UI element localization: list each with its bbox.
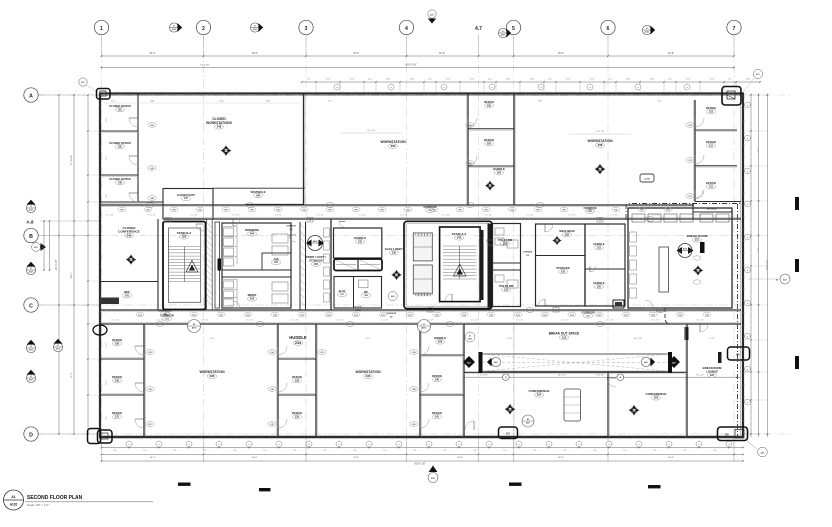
wall closed conference bottom <box>100 281 158 283</box>
svg-text:01: 01 <box>57 345 59 347</box>
label womens <box>245 228 259 236</box>
svg-text:4: 4 <box>405 26 408 32</box>
svg-text:234: 234 <box>295 341 301 345</box>
title text <box>25 495 153 507</box>
stair A-2 enclosure <box>440 227 481 302</box>
svg-text:12'-0": 12'-0" <box>686 79 691 81</box>
svg-text:01: 01 <box>30 346 32 348</box>
wall office column mid-left <box>467 94 469 206</box>
svg-text:11'-1 1/2": 11'-1 1/2" <box>651 320 659 322</box>
svg-text:12'-0": 12'-0" <box>410 79 415 81</box>
section marker 01/A363 left <box>26 262 35 275</box>
label office 240b <box>432 374 442 382</box>
svg-text:D3: D3 <box>193 324 195 326</box>
wall partition office 211 <box>695 201 741 203</box>
svg-text:13: 13 <box>659 310 661 312</box>
extension lines bottom <box>102 324 735 461</box>
label mech elec <box>707 209 718 211</box>
svg-text:E6: E6 <box>736 353 740 357</box>
door huddle 213 <box>590 266 596 272</box>
svg-text:7'-6": 7'-6" <box>353 450 357 452</box>
svg-text:7'-6": 7'-6" <box>203 450 207 452</box>
section marker top between 4 and 4.7 <box>428 10 436 24</box>
svg-text:2'-0": 2'-0" <box>668 79 672 81</box>
wall partition closed offices 1 <box>100 130 138 132</box>
svg-text:7'-6": 7'-6" <box>756 148 758 152</box>
svg-text:11'-8": 11'-8" <box>111 100 116 102</box>
svg-text:7'-6": 7'-6" <box>756 248 758 252</box>
svg-text:11'-10": 11'-10" <box>294 338 300 340</box>
label storage 210 <box>556 266 570 274</box>
svg-text:11'-1 1/2": 11'-1 1/2" <box>291 320 299 322</box>
svg-text:7'-6": 7'-6" <box>503 450 507 452</box>
svg-text:7'-6": 7'-6" <box>533 450 537 452</box>
svg-text:12'-0": 12'-0" <box>710 79 715 81</box>
door breakroom lounge <box>700 324 708 332</box>
left dim extra A.8 to B <box>42 220 50 271</box>
grid line 7 <box>733 36 735 462</box>
svg-text:12'-0": 12'-0" <box>506 79 511 81</box>
grid bubble D <box>24 427 38 441</box>
detail circle 03/A372 <box>418 320 431 333</box>
detail circle A3/A401 <box>522 415 534 427</box>
exterior wall top <box>99 92 743 94</box>
label huddle 220 <box>593 281 604 289</box>
exterior wall bottom <box>99 436 744 439</box>
wall partition closed offices 2 <box>100 174 138 176</box>
svg-text:236: 236 <box>210 374 215 378</box>
grid bubble 3 <box>299 20 313 34</box>
door huddle 232 <box>339 222 345 228</box>
corridor dim text row bottom <box>111 320 704 322</box>
label elav 227 <box>337 290 346 297</box>
dimension line top level 1 <box>101 35 735 57</box>
dimension line bottom overall <box>101 460 744 465</box>
section marker 04/A362 top <box>169 23 182 32</box>
svg-text:13: 13 <box>309 220 311 222</box>
svg-text:11'-1 1/2": 11'-1 1/2" <box>201 320 209 322</box>
door toilet 218 <box>487 240 493 246</box>
svg-text:11'-8": 11'-8" <box>106 380 108 385</box>
svg-text:10'-0": 10'-0" <box>106 415 108 420</box>
svg-text:17'-2 3/4": 17'-2 3/4" <box>106 215 114 217</box>
smoke partition dashed top right <box>626 204 741 220</box>
label vestibule <box>250 190 265 198</box>
wall print copy storage <box>300 219 331 310</box>
corridor wall core north <box>163 218 741 220</box>
svg-text:7'-6": 7'-6" <box>473 450 477 452</box>
stair B-2 label <box>177 231 192 239</box>
svg-text:A: A <box>29 94 33 100</box>
svg-text:2'-0": 2'-0" <box>368 79 372 81</box>
wall double-line faces <box>100 95 737 437</box>
svg-text:17'-0 1/2": 17'-0 1/2" <box>480 374 488 376</box>
label ref 241 <box>122 290 131 298</box>
grid line 5 <box>513 36 515 462</box>
section marker left C-D inner <box>53 339 62 352</box>
section marker D5/A371 top right <box>741 69 763 95</box>
svg-text:C: C <box>29 304 33 310</box>
door closed office 251 <box>129 118 138 127</box>
grid bubble 1 <box>94 20 108 34</box>
wall conference partition <box>607 372 609 437</box>
label huddle 228 <box>434 336 447 344</box>
svg-text:A321: A321 <box>783 278 787 281</box>
shaft dark rect left wall <box>100 298 119 305</box>
dimension line left level 2 <box>56 94 60 435</box>
stair B-2 treads <box>169 228 201 302</box>
svg-text:A401: A401 <box>526 422 530 425</box>
svg-text:8'-0": 8'-0" <box>658 100 662 102</box>
section marker 01/A362 top <box>250 23 263 32</box>
exterior wall left <box>99 93 101 439</box>
svg-text:A102: A102 <box>10 503 18 507</box>
label workstation 265 <box>380 140 406 149</box>
label closed office 249 <box>109 177 131 185</box>
label corridor 214 <box>523 252 533 257</box>
door conference 224 <box>465 421 474 430</box>
svg-text:600'-0 1/8": 600'-0 1/8" <box>415 464 426 466</box>
door office 241b <box>420 419 429 428</box>
svg-text:36'-8": 36'-8" <box>439 52 445 55</box>
svg-text:12'-0": 12'-0" <box>326 79 331 81</box>
svg-text:17'-2 3/4": 17'-2 3/4" <box>358 215 366 217</box>
section marker A303 left above A.8 <box>26 200 35 213</box>
door number ovals corridors <box>146 203 664 327</box>
detail circle A403 elev lobby <box>388 292 397 301</box>
svg-text:A372: A372 <box>422 327 426 330</box>
svg-text:210: 210 <box>561 270 566 273</box>
svg-text:5: 5 <box>512 26 515 32</box>
grid line 3 <box>305 36 307 462</box>
svg-text:11'-8": 11'-8" <box>106 117 108 122</box>
marker A427 diamond left <box>463 356 475 368</box>
mech shaft rooms central block <box>413 233 432 296</box>
svg-text:11'-8": 11'-8" <box>106 342 108 347</box>
door office 211 right <box>695 190 704 199</box>
svg-text:221B: 221B <box>644 179 650 181</box>
grid leader lines left <box>38 95 100 434</box>
wall closed workstations bottom <box>213 187 305 189</box>
svg-text:30'-0": 30'-0" <box>150 457 156 459</box>
svg-text:17'-2 3/4": 17'-2 3/4" <box>694 215 702 217</box>
svg-text:13: 13 <box>599 220 601 222</box>
scale bar dash 3 <box>509 483 522 486</box>
label huddle 213 <box>593 242 604 250</box>
label closed conference <box>118 226 140 238</box>
svg-text:A361: A361 <box>431 477 435 480</box>
interior elevation marker huddle 204 <box>485 181 495 191</box>
svg-text:7'-6": 7'-6" <box>443 450 447 452</box>
svg-text:11'-1 1/2": 11'-1 1/2" <box>561 320 569 322</box>
svg-text:2'-0": 2'-0" <box>548 79 552 81</box>
door office 205 <box>468 156 477 165</box>
label breakroom lounge <box>703 366 722 377</box>
svg-text:7'-6": 7'-6" <box>323 450 327 452</box>
svg-text:13: 13 <box>357 309 359 311</box>
grid line 4.7 <box>478 36 480 462</box>
interior elevation marker break room 1 <box>677 244 694 258</box>
label corridor 229 <box>386 313 397 318</box>
svg-text:8'-0": 8'-0" <box>328 100 332 102</box>
scale bar dash 1 <box>178 483 191 486</box>
toilet rooms womens mens <box>222 223 291 308</box>
svg-text:03: 03 <box>423 324 425 326</box>
match line tick right upper <box>795 197 799 210</box>
svg-text:17'-2 3/4": 17'-2 3/4" <box>526 215 534 217</box>
label corridor 203 <box>423 206 436 213</box>
svg-text:Scale: 1/8" = 1'-0": Scale: 1/8" = 1'-0" <box>27 503 49 507</box>
grid label A.8 <box>26 220 100 225</box>
tag ovals corridor top row <box>118 207 672 211</box>
label office 212 right <box>706 140 716 148</box>
svg-text:01: 01 <box>502 31 504 33</box>
wall closed conference right <box>157 219 159 310</box>
door wellness <box>545 224 553 232</box>
door conference 223 <box>607 378 616 387</box>
svg-text:12'-0": 12'-0" <box>566 79 571 81</box>
detail circle D3/A372 <box>188 320 201 333</box>
svg-text:239: 239 <box>115 342 120 345</box>
svg-text:4.7: 4.7 <box>475 26 482 32</box>
door office 206 <box>468 118 477 127</box>
grid line B <box>38 235 748 237</box>
svg-text:23'-11 5/8": 23'-11 5/8" <box>71 155 73 165</box>
door stair A-2 lower <box>445 294 452 301</box>
svg-text:01: 01 <box>30 206 32 208</box>
section marker A301 left <box>32 243 46 252</box>
wall huddle 232 <box>334 228 382 258</box>
dimension line left level 1 <box>71 94 75 435</box>
wall partition office 238 <box>100 394 144 396</box>
label wellness <box>559 229 575 237</box>
svg-text:265: 265 <box>391 144 396 148</box>
svg-text:12'-0": 12'-0" <box>626 79 631 81</box>
detail callout right wall middle <box>728 347 750 360</box>
section marker 07/A362 top <box>498 28 511 37</box>
svg-text:2'-0": 2'-0" <box>307 79 311 81</box>
equipment tag break room NE <box>640 174 654 182</box>
svg-text:222: 222 <box>710 374 715 377</box>
label office 205 <box>484 138 494 146</box>
svg-text:10'-0": 10'-0" <box>106 193 108 198</box>
label conference 224 <box>528 389 549 397</box>
wall grid3 vertical top band <box>303 94 305 206</box>
svg-text:2: 2 <box>202 26 205 32</box>
svg-text:7'-6": 7'-6" <box>113 450 117 452</box>
door office 238 <box>135 383 144 392</box>
svg-text:17'-2 1/2": 17'-2 1/2" <box>696 374 704 376</box>
label closed office 251 <box>109 104 131 112</box>
door storage 210 <box>538 299 545 306</box>
door office 211b <box>695 190 703 198</box>
svg-text:A413: A413 <box>696 269 700 272</box>
tag ovals corridor bottom row <box>136 312 711 316</box>
svg-text:47'-0": 47'-0" <box>210 338 215 340</box>
wall office column mid-right <box>513 94 515 206</box>
grid bubble 7 <box>727 20 741 34</box>
svg-text:11'-1 1/2": 11'-1 1/2" <box>336 320 344 322</box>
svg-text:11'-1 1/2": 11'-1 1/2" <box>381 320 389 322</box>
svg-text:36'-8": 36'-8" <box>252 457 258 459</box>
svg-text:A414: A414 <box>555 240 559 243</box>
grid bubble 5 <box>506 20 520 34</box>
svg-text:240: 240 <box>435 378 440 381</box>
svg-text:213: 213 <box>709 110 714 113</box>
shaft dark bar 2 <box>488 224 492 308</box>
elevator shaft wall hatch <box>206 219 212 310</box>
interior elevation marker break room 2 <box>693 265 703 275</box>
wall office column left top <box>137 94 139 203</box>
door office 239 <box>135 346 144 355</box>
svg-text:66'-8 5/8": 66'-8 5/8" <box>200 65 209 67</box>
svg-text:55'-4 1/4": 55'-4 1/4" <box>596 131 605 133</box>
svg-text:244: 244 <box>250 232 255 236</box>
wall huddle column mid <box>585 224 625 306</box>
dimension line bottom level 1 <box>101 447 744 453</box>
svg-text:11'-1 1/2": 11'-1 1/2" <box>606 320 614 322</box>
svg-text:36'-8": 36'-8" <box>353 52 359 55</box>
svg-text:CORRIDOR: CORRIDOR <box>581 312 594 315</box>
grid bubble 4.7 <box>475 26 482 32</box>
corridor dim text row top <box>106 215 702 217</box>
corridor wall top north <box>100 205 694 207</box>
label office 236b <box>292 375 302 383</box>
svg-text:36'-8": 36'-8" <box>668 52 674 55</box>
svg-text:3: 3 <box>305 26 308 32</box>
svg-text:15'-8 5/8": 15'-8 5/8" <box>596 374 604 376</box>
corridor wall core south <box>100 310 741 312</box>
svg-text:A416: A416 <box>129 259 133 262</box>
svg-text:229: 229 <box>390 316 393 318</box>
wall wellness storage <box>536 224 586 306</box>
wall partition column2 a <box>420 354 464 356</box>
door stair B-2 <box>196 224 203 231</box>
exterior wall inner face right <box>740 94 742 438</box>
label office 239 <box>112 338 122 346</box>
svg-text:7'-6": 7'-6" <box>263 450 267 452</box>
wall partition column1 a <box>278 358 316 360</box>
window tag circles top wall <box>334 84 690 90</box>
exterior wall right <box>742 93 744 439</box>
wall mech elec room <box>693 204 732 219</box>
stair A-2 label <box>452 232 467 240</box>
dimension line left inner <box>86 94 100 435</box>
wall column1 left <box>277 324 279 437</box>
svg-text:12'-0": 12'-0" <box>446 79 451 81</box>
label closed workstations <box>206 117 232 129</box>
svg-text:7'-6": 7'-6" <box>683 450 687 452</box>
dimension line right inner <box>744 94 768 438</box>
door print copy <box>289 235 296 242</box>
svg-text:239: 239 <box>290 229 293 231</box>
svg-text:12'-0": 12'-0" <box>650 79 655 81</box>
svg-text:7'-6": 7'-6" <box>383 450 387 452</box>
svg-text:SECOND FLOOR PLAN: SECOND FLOOR PLAN <box>27 495 83 501</box>
dim texts bottom band <box>210 338 715 340</box>
svg-text:232: 232 <box>358 241 363 244</box>
wall closed data room <box>163 189 213 220</box>
svg-text:36'-8": 36'-8" <box>558 457 564 459</box>
svg-text:7'-6": 7'-6" <box>413 450 417 452</box>
svg-text:36'-8": 36'-8" <box>353 457 359 459</box>
grid line C <box>38 304 748 306</box>
wall partition office 212 <box>695 165 737 167</box>
svg-text:11'-10": 11'-10" <box>709 338 715 340</box>
door office 213 right <box>695 118 704 127</box>
svg-text:CORRIDOR: CORRIDOR <box>158 310 171 313</box>
svg-text:01: 01 <box>254 26 256 28</box>
svg-text:36'-8": 36'-8" <box>252 52 258 55</box>
svg-text:17'-2 3/4": 17'-2 3/4" <box>400 215 408 217</box>
label corridor 207 <box>583 207 596 214</box>
svg-text:17'-2 3/4": 17'-2 3/4" <box>148 215 156 217</box>
dimension row breakout <box>463 374 741 381</box>
svg-text:12'-0": 12'-0" <box>386 79 391 81</box>
door closed office 250 <box>129 156 138 165</box>
match line tick right lower <box>795 356 799 369</box>
wall conference east <box>686 324 688 437</box>
grid line 4 <box>406 36 408 462</box>
label office 237 <box>112 411 122 419</box>
operable partition breakout <box>479 352 673 373</box>
sub-top dimension texts <box>104 99 662 103</box>
label huddle 204 <box>493 167 505 175</box>
scale bar dash 4 <box>648 485 661 488</box>
svg-text:86'-1 1/4": 86'-1 1/4" <box>634 338 642 340</box>
label huddle 234 <box>289 335 307 345</box>
svg-text:40'-2": 40'-2" <box>366 338 371 340</box>
stair B-2 enclosure <box>163 222 206 310</box>
svg-text:17'-2 3/4": 17'-2 3/4" <box>652 215 660 217</box>
interior elevation marker conference 223 <box>629 405 640 416</box>
svg-text:12'-0": 12'-0" <box>530 79 535 81</box>
curtain wall mullion ticks exterior <box>98 91 745 439</box>
door office 236b <box>278 383 287 392</box>
svg-text:241: 241 <box>125 294 130 297</box>
svg-text:13: 13 <box>429 310 431 312</box>
svg-text:248: 248 <box>217 125 222 129</box>
dimension line right level 2 <box>765 94 768 438</box>
label break room <box>687 234 708 242</box>
section marker 01/A371 top left <box>79 78 98 92</box>
wall column1 right <box>315 324 317 437</box>
break room interior tag ovals <box>693 256 701 284</box>
section marker left C-D upper <box>26 340 35 353</box>
svg-text:205: 205 <box>487 142 492 145</box>
wall closed offices bottom <box>100 201 163 203</box>
label mens <box>247 293 256 301</box>
label corridor 212 <box>581 312 594 319</box>
shaft dark bar left of toilets <box>480 230 484 300</box>
detail callout bottom-right corner <box>718 427 748 441</box>
door closed office 249 <box>129 193 138 202</box>
dark shaft core south <box>613 300 624 308</box>
scale bar dash 2 <box>259 488 271 491</box>
svg-text:01: 01 <box>173 26 175 28</box>
leader line E8 to A6 marker <box>747 441 758 450</box>
dimension line bottom level 2 <box>101 454 744 460</box>
svg-text:11'-1 1/2": 11'-1 1/2" <box>516 320 524 322</box>
interior elevation marker workstation 208 <box>595 164 606 175</box>
label break out space <box>549 332 580 340</box>
svg-text:7'-6": 7'-6" <box>143 450 147 452</box>
break room west casework <box>630 232 637 298</box>
svg-text:7: 7 <box>733 26 736 32</box>
svg-text:11'-1 1/2": 11'-1 1/2" <box>471 320 479 322</box>
svg-text:245: 245 <box>127 233 132 237</box>
svg-text:A416: A416 <box>224 150 228 153</box>
